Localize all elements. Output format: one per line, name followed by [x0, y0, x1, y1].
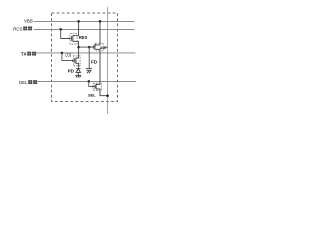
svg-text:TX: TX [21, 52, 27, 57]
node SEL source on signal line [106, 94, 109, 97]
arrow into RES gate [69, 37, 71, 39]
arrow into TX gate [72, 60, 74, 62]
transistor AMP [93, 21, 100, 84]
wire VBB horizontal [34, 20, 134, 22]
svg-text:PD: PD [68, 68, 75, 73]
transistor SEL [95, 84, 108, 96]
wire TX horizontal [37, 52, 136, 54]
svg-text:VBB: VBB [24, 19, 33, 24]
wire DEL to SEL gate [89, 81, 94, 86]
SEL dashed box [93, 83, 101, 90]
wire FD node horizontal [79, 46, 94, 48]
node RCS tap [59, 28, 62, 31]
photodiode PD [75, 67, 81, 77]
label TX signal [21, 52, 36, 57]
node FD at RES source [77, 46, 80, 49]
node TX tap [61, 52, 64, 55]
vertical signal line [107, 7, 109, 114]
wire TX to gate [62, 53, 73, 61]
svg-text:DEL: DEL [19, 80, 28, 85]
arrow into SEL gate [92, 85, 94, 87]
wire DEL horizontal [38, 80, 137, 82]
svg-text:FD: FD [91, 59, 98, 64]
transistor RES [72, 21, 79, 47]
pixel cell dashed box [52, 13, 118, 102]
wire AMP gate [89, 46, 93, 48]
node RES drain on VBB [77, 20, 80, 23]
node FD at AMP gate branch [88, 46, 91, 49]
transistor TX [75, 47, 79, 67]
wire FD down to capacitor [88, 47, 90, 68]
svg-text:SEL: SEL [88, 93, 96, 98]
capacitor FD to ground [86, 68, 92, 73]
wire RCS horizontal [34, 28, 134, 30]
AMP dashed box [96, 43, 104, 51]
RES dashed box [70, 34, 77, 45]
svg-text:RCS: RCS [13, 26, 22, 31]
svg-text:AMP: AMP [100, 46, 109, 50]
wire RCS to RES gate [61, 29, 70, 38]
TX dashed box [73, 56, 80, 66]
node AMP drain on VBB [99, 20, 102, 23]
svg-text:RES: RES [79, 35, 88, 40]
label RCS signal [13, 26, 32, 31]
label DEL signal [19, 80, 37, 85]
node DEL tap [88, 80, 91, 83]
